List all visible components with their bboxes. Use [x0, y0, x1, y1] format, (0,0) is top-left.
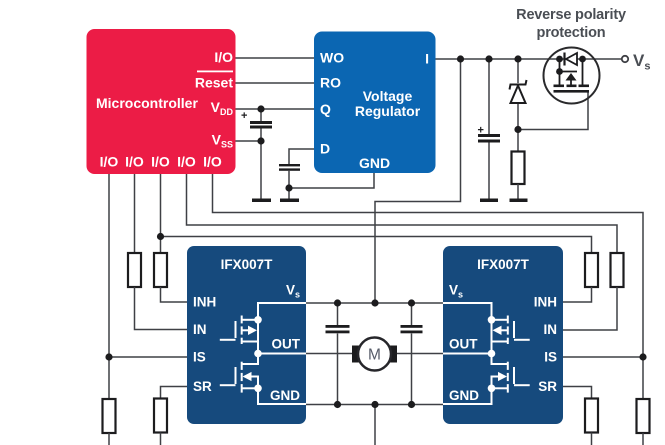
wire R5 bottom: [517, 184, 519, 199]
svg-text:Reverse polarity: Reverse polarity: [516, 7, 626, 23]
microcontroller U1: [87, 29, 236, 174]
wire SR left: [161, 387, 188, 399]
node IS right: [639, 353, 646, 360]
wire C2 bottom: [288, 171, 290, 199]
wire I/O3 column: [160, 174, 162, 253]
node Q5 source: [488, 385, 496, 393]
resistor R5: [512, 152, 525, 185]
wire VDD to Q: [235, 108, 314, 110]
node supply b: [485, 55, 492, 62]
wire R4 bottom: [160, 433, 162, 445]
ground for C1: [252, 199, 271, 203]
svg-text:Microcontroller: Microcontroller: [96, 95, 198, 111]
node Q2 drain: [254, 316, 262, 324]
node Q3 out: [254, 350, 262, 358]
node VSS cap bottom: [257, 137, 264, 144]
terminal Vs open circle: [622, 56, 628, 62]
svg-text:IS: IS: [193, 350, 206, 365]
wire motor cap 1 column: [337, 303, 339, 325]
wire VDD cap column: [260, 109, 262, 121]
capacitor C3 electrolytic: [478, 125, 501, 143]
node supply c: [514, 55, 521, 62]
node Q5 out: [488, 350, 496, 358]
voltage regulator U2: [314, 32, 436, 174]
node Q4 drain: [488, 316, 496, 324]
transistor Q5 right low-side: [443, 354, 530, 405]
svg-text:IFX007T: IFX007T: [221, 257, 274, 272]
node zener bottom: [514, 126, 521, 133]
svg-text:GND: GND: [270, 388, 300, 403]
wire I/O5 column: [213, 174, 644, 399]
svg-text:I/O: I/O: [100, 154, 119, 170]
node IS left: [105, 353, 112, 360]
ground for R5: [510, 199, 528, 203]
wire I/O1 column: [108, 174, 110, 399]
wire GND rail: [306, 404, 443, 406]
resistor R6 right INH: [585, 253, 598, 287]
svg-text:GND: GND: [449, 388, 479, 403]
wire GND down: [374, 405, 376, 445]
node Vs rail b: [371, 299, 378, 306]
transistor Q2 left high-side: [220, 303, 306, 353]
svg-text:IN: IN: [544, 322, 558, 337]
capacitor C5: [401, 325, 423, 333]
wire R1 bottom: [108, 433, 110, 445]
zener diode D1: [510, 80, 527, 103]
svg-text:+: +: [241, 110, 247, 122]
wire VR GND pin: [289, 173, 374, 188]
node C2 gnd: [285, 184, 292, 191]
wire R3 to INH: [161, 287, 188, 302]
wire Vs rail: [306, 302, 443, 304]
svg-text:Reset: Reset: [195, 75, 233, 91]
wire VSS: [235, 140, 261, 142]
svg-text:I/O: I/O: [214, 49, 233, 65]
transistor Q3 left low-side: [220, 354, 306, 405]
wire D pin: [289, 149, 314, 164]
svg-text:I/O: I/O: [125, 154, 144, 170]
IFX007T U4 right: [443, 246, 563, 424]
node Q3 source: [254, 385, 262, 393]
svg-text:I/O: I/O: [151, 154, 170, 170]
IFX007T U3 left: [187, 246, 306, 424]
svg-text:Voltage: Voltage: [363, 88, 413, 104]
supply rail wire: [436, 58, 623, 60]
wire INH bus: [161, 237, 592, 254]
svg-text:M: M: [368, 347, 381, 364]
wire R6 to INH right: [563, 287, 592, 302]
svg-text:protection: protection: [537, 25, 606, 41]
wire Reset to RO: [235, 82, 314, 84]
wire I/O2 column: [134, 174, 136, 253]
svg-text:I: I: [425, 51, 429, 67]
resistor R3: [154, 253, 167, 287]
node supply a: [457, 55, 464, 62]
svg-text:IN: IN: [193, 322, 207, 337]
svg-text:+: +: [478, 125, 484, 137]
ground for C2: [280, 199, 299, 203]
wire R8 bottom: [642, 433, 644, 445]
wire gate line: [518, 92, 588, 130]
svg-text:WO: WO: [320, 50, 344, 66]
node GND rail b: [371, 401, 378, 408]
wire IS left: [109, 356, 187, 358]
resistor R1: [103, 399, 116, 433]
wire supply to half-bridge Vs: [375, 59, 461, 303]
svg-text:INH: INH: [193, 295, 216, 310]
resistor R9 right SR: [585, 399, 598, 433]
svg-text:IFX007T: IFX007T: [477, 257, 530, 272]
node VDD cap top: [257, 105, 264, 112]
wire OUT left: [306, 353, 353, 355]
transistor Q4 right high-side: [443, 303, 530, 353]
wire SR right: [563, 387, 592, 399]
node Vs rail c: [408, 299, 415, 306]
wire motor cap 2 column: [411, 303, 413, 325]
node Vs rail a: [334, 299, 341, 306]
svg-text:INH: INH: [534, 295, 557, 310]
wire supply cap column: [488, 59, 490, 134]
node INH bus: [157, 233, 164, 240]
motor M: [352, 338, 397, 371]
capacitor C2 ceramic: [279, 164, 300, 171]
wire I/O to WO: [235, 57, 314, 59]
wire OUT right: [396, 353, 443, 355]
svg-text:SR: SR: [538, 379, 557, 394]
svg-text:RO: RO: [320, 75, 341, 91]
svg-text:IS: IS: [544, 350, 557, 365]
transistor Q1 reverse polarity mosfet: [544, 48, 600, 104]
svg-text:OUT: OUT: [449, 337, 478, 352]
resistor R8 right IS: [637, 399, 650, 433]
svg-text:Regulator: Regulator: [355, 103, 421, 119]
svg-text:Q: Q: [320, 101, 331, 117]
resistor R2: [128, 253, 141, 287]
svg-text:GND: GND: [359, 155, 390, 171]
node GND rail c: [408, 401, 415, 408]
svg-text:SR: SR: [193, 379, 212, 394]
resistor R7 right IN: [611, 253, 624, 287]
wire R9 bottom: [591, 433, 593, 445]
ground for C3: [480, 199, 498, 203]
wire R7 to IN right: [563, 287, 617, 330]
wire R2 to IN: [135, 287, 188, 330]
wire zener column: [517, 59, 519, 83]
capacitor C1 electrolytic: [241, 110, 272, 129]
capacitor C4: [326, 325, 350, 333]
resistor R4: [154, 399, 167, 433]
svg-text:I/O: I/O: [203, 154, 222, 170]
svg-text:D: D: [320, 141, 330, 157]
svg-text:I/O: I/O: [177, 154, 196, 170]
node GND rail a: [334, 401, 341, 408]
svg-text:OUT: OUT: [272, 337, 301, 352]
wire IS right: [563, 356, 643, 358]
wire I/O4 column: [187, 174, 618, 253]
